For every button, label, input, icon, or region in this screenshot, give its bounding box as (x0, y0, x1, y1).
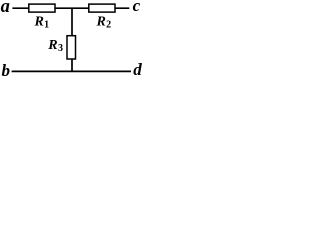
wire bottom rail b-d (12, 70, 131, 72)
svg-text:a: a (1, 0, 10, 17)
svg-text:c: c (133, 0, 141, 15)
svg-text:R1: R1 (34, 14, 50, 30)
resistor R1 (29, 4, 55, 12)
resistor R3 (67, 36, 76, 59)
svg-text:b: b (2, 61, 11, 80)
resistor R2 (89, 4, 115, 12)
svg-text:R3: R3 (47, 38, 63, 54)
svg-text:d: d (133, 60, 142, 79)
wire top rail a-c (12, 7, 129, 9)
wire middle branch (71, 8, 73, 71)
svg-text:R2: R2 (96, 14, 112, 30)
